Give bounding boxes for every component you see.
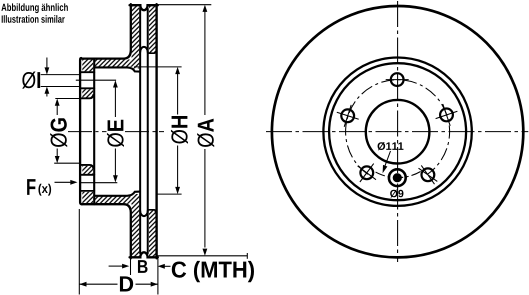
ØG lower arrowhead (55, 156, 60, 163)
label D (120, 276, 133, 291)
hat wall inner surface top + fillet (94, 67, 140, 71)
bolt hole top (391, 73, 404, 86)
label ØA (rotated) (197, 119, 214, 147)
disc bottom edge with vent notch (130, 252, 158, 257)
ØH lower arrowhead (175, 187, 180, 194)
friction ring inner step circle (329, 63, 466, 200)
screw hole arc (dash-dot) (375, 172, 421, 178)
D right arrowhead (151, 282, 158, 287)
label ØI (22, 72, 40, 89)
ØA top reference line (158, 4, 211, 6)
section: right plate top hatch (149, 6, 156, 53)
upper-right bolt hole ticks (436, 104, 458, 126)
label F (27, 179, 35, 195)
header text line 1 (1, 3, 67, 13)
ØA lower arrowhead (203, 249, 208, 256)
ØH upper arrowhead (175, 67, 180, 74)
ØA upper arrowhead (203, 5, 208, 12)
label B (138, 260, 148, 273)
B left extension stroke (130, 259, 132, 276)
ØG upper reference line (55, 98, 81, 100)
right plate inner edge bottom (149, 210, 156, 212)
ØE dim line segments (114, 86, 116, 117)
section: hat top wall hatch (95, 60, 132, 67)
left view axis centreline (68, 131, 164, 133)
ØE lower arrowhead (113, 175, 118, 182)
section: right plate bottom hatch (149, 210, 156, 257)
hat wall inner surface bottom + fillet (94, 192, 140, 196)
label ØG (rotated) (50, 118, 67, 147)
vent channel left wall (139, 9, 141, 254)
section: left plate bottom hatch (132, 194, 140, 257)
ØH dim line segments (177, 73, 179, 115)
F(x) arrowhead (70, 180, 77, 185)
upper-left bolt hole ticks (337, 105, 359, 127)
section: flange hatch upper2 (82, 89, 93, 97)
Ø111 leader arrowhead (383, 165, 388, 173)
disc outer face (right) (155, 4, 157, 258)
ØA bottom reference end tick (246, 253, 248, 259)
ØI lower reference line (41, 86, 80, 88)
friction ring outer step circle (323, 58, 471, 206)
bolt hole lower-right (422, 168, 435, 181)
ØA bottom reference line (157, 255, 248, 257)
bolt hole lower edge lines in flange (81, 174, 94, 176)
D left extension line (78, 209, 80, 295)
header text line 2 (2, 15, 65, 23)
flange inner face (right) (93, 59, 95, 205)
bolt hole upper-left (341, 109, 354, 122)
left plate outer face top + fillet into hat wall top surface (82, 4, 131, 58)
lower-right bolt hole ticks (419, 165, 438, 184)
front view outer circle (272, 6, 523, 257)
bolt hole upper edge lines in flange (81, 71, 94, 73)
lower-left bolt hole ticks (358, 164, 376, 182)
ØI upper reference line (41, 74, 80, 76)
section: flange hatch upper1 (82, 60, 93, 72)
locating hole filled centre (393, 173, 402, 182)
ØG lower reference line (54, 162, 80, 164)
bolt hole upper-right (440, 109, 453, 122)
label Ø111 (378, 142, 404, 150)
D right extension line (157, 258, 159, 294)
ØA dim line segments (204, 11, 206, 116)
vent channel right wall (147, 9, 149, 254)
ØI upper arrowhead (45, 67, 50, 74)
flange mounting face (left) (80, 58, 82, 204)
section: left plate top hatch (82, 6, 155, 257)
centre bore bottom edge + fillet (81, 165, 93, 168)
ØH upper reference line (134, 66, 182, 68)
top bolt hole tangent tick (386, 79, 409, 81)
ØG dim line segments (56, 105, 58, 116)
label ØE (rotated) (107, 120, 124, 147)
disc top edge with vent notch (130, 5, 158, 10)
label Ø9 (390, 190, 403, 198)
locating hole outer ring (389, 169, 406, 186)
vent channel inner end cap bottom (140, 211, 148, 217)
C arrowhead (158, 264, 165, 269)
section: flange hatch lower2 (82, 192, 93, 204)
bolt hole centreline upper (76, 79, 116, 81)
label (x) (38, 184, 51, 196)
C arrow line (163, 265, 171, 267)
vertical centreline (397, 1, 399, 262)
ØE upper arrowhead (113, 80, 118, 87)
D dimension line (79, 283, 158, 285)
centre bore top edge + fillet (81, 95, 93, 98)
label C (MTH) (172, 261, 254, 282)
F(x) leader line (55, 181, 72, 183)
bolt hole lower-left (360, 166, 373, 179)
B left arrow line (109, 265, 124, 267)
hub centre bore circle (366, 100, 430, 164)
label ØH (rotated) (171, 116, 188, 144)
horizontal centreline (266, 131, 528, 133)
ØG upper arrowhead (55, 99, 60, 106)
section: hat bottom wall hatch (95, 197, 132, 204)
section: flange hatch lower1 (82, 166, 93, 174)
Ø111 leader line (384, 151, 391, 169)
ØI lower arrowhead (45, 87, 50, 94)
bolt hole centreline lower (81, 182, 117, 184)
D left arrowhead (79, 282, 86, 287)
vent channel inner end cap top (140, 47, 148, 53)
B left arrowhead (122, 264, 129, 269)
ØH lower reference line (157, 193, 182, 195)
ØI dim line upper segment (46, 58, 48, 70)
left plate outer face bottom + fillet into hat wall bottom surface (82, 204, 131, 258)
ØI dim line lower segment (46, 92, 48, 97)
right plate inner edge top (149, 52, 156, 54)
bolt circle (dash-dot) (346, 80, 450, 175)
